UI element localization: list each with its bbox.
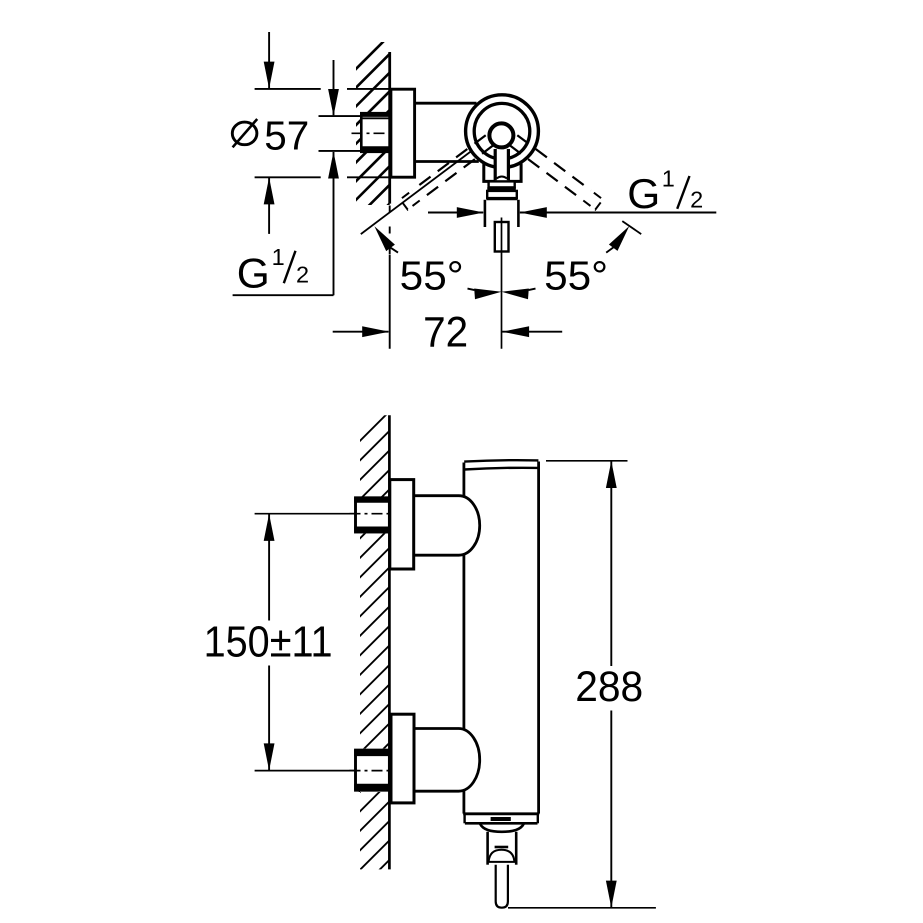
dim diam 57: lower arrow <box>268 178 270 234</box>
svg-text:2: 2 <box>296 262 309 288</box>
outlet hex band <box>487 191 517 198</box>
bottom union centerline <box>350 770 395 772</box>
lever handle shaft (neutral, pointing down) <box>495 140 508 181</box>
outlet black seal band <box>487 187 516 191</box>
wall line (bottom view) <box>388 415 391 869</box>
outlet tube with rounded end <box>496 865 508 908</box>
wall line (top view) <box>388 52 391 204</box>
bottom escutcheon flange (bottom view) <box>391 714 414 803</box>
dim arrow left side of outlet <box>428 212 483 214</box>
svg-text:G: G <box>627 170 660 217</box>
outlet inner dome <box>489 850 515 862</box>
dim 150+-11: dimension line and arrows <box>264 514 275 541</box>
dim 72: extension line from wall (dashed then solid) <box>389 206 391 256</box>
bottom S-union horn connector <box>414 729 480 792</box>
shower outlet cup <box>480 824 524 832</box>
svg-text:288: 288 <box>575 664 643 711</box>
collar below knob <box>484 164 521 182</box>
left 55deg axis line (thin solid) <box>361 151 471 234</box>
knob outer circle <box>466 95 539 168</box>
top S-union horn connector <box>414 496 480 556</box>
union centerline <box>352 132 397 134</box>
lever rotated left 55deg (dashed) <box>420 145 494 200</box>
lever rotated right 55deg (dashed) <box>510 145 584 200</box>
svg-text:2: 2 <box>690 186 703 212</box>
dim 150+-11: extension lines <box>255 513 356 515</box>
pipe extension lines <box>319 115 362 117</box>
dim G1/2 left: lower arrow + bent leader <box>328 152 339 179</box>
svg-text:1: 1 <box>662 166 675 192</box>
valve body tube (top view) <box>415 102 477 105</box>
dim 288: dimension line and arrows <box>606 461 617 488</box>
dim 72: left arrow <box>333 331 389 333</box>
union nut G1/2 on supply (top view) <box>361 113 389 152</box>
bottom view: wall hatching <box>350 406 395 919</box>
dim G1/2 left: upper arrow <box>333 60 335 115</box>
escutcheon flange (top view) <box>391 89 415 177</box>
body top cap <box>464 460 538 461</box>
dim diam 57: lower extension line <box>255 176 321 178</box>
55deg arc arrows at centerline <box>468 289 475 291</box>
top union centerline <box>350 513 395 515</box>
svg-text:55°: 55° <box>544 253 608 299</box>
outlet centerline <box>501 218 503 349</box>
svg-text:150±11: 150±11 <box>204 619 333 667</box>
outlet cylinder <box>486 832 489 865</box>
lever pivot small circle <box>489 123 513 147</box>
svg-text:1: 1 <box>272 244 285 270</box>
svg-text:57: 57 <box>264 112 309 158</box>
dim G1/2 right: arrow at outlet + leader line <box>520 207 547 218</box>
top escutcheon flange (bottom view) <box>390 480 414 569</box>
outlet stack under knob: ring band <box>489 181 515 187</box>
svg-text:G: G <box>237 250 270 297</box>
faucet body cylinder <box>462 463 465 498</box>
bottom wall union (bottom view) <box>356 750 390 790</box>
dim diam 57: upper extension line <box>255 88 321 90</box>
55deg arc arrow at left lever axis <box>374 226 395 251</box>
top view: wall hatching <box>350 30 395 243</box>
label diam 57 <box>232 122 257 145</box>
top wall union (bottom view) <box>356 498 390 532</box>
body bottom cap and rim <box>463 812 539 815</box>
outlet tube walls <box>484 200 487 227</box>
knob inner ring <box>474 103 530 159</box>
outlet threaded spigot G1/2 <box>495 222 509 252</box>
right 55deg axis tick <box>622 221 641 234</box>
dim 288: extension lines <box>546 460 628 462</box>
dim diam 57: upper arrow <box>268 32 270 88</box>
svg-text:72: 72 <box>423 308 468 356</box>
55deg arc arrow at right lever axis <box>609 226 629 251</box>
dim 72: right arrow <box>502 326 529 337</box>
svg-text:55°: 55° <box>400 252 464 298</box>
